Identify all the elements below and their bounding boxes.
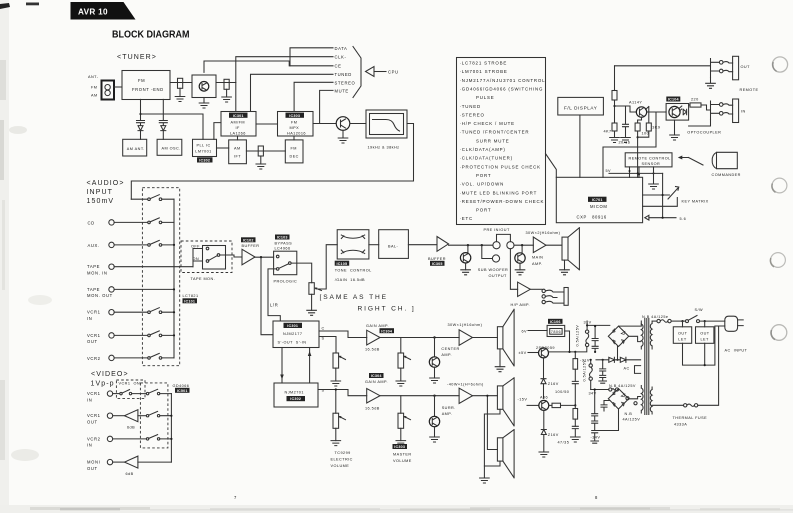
ground — [222, 97, 232, 102]
svg-text:BLOCK DIAGRAM: BLOCK DIAGRAM — [112, 30, 190, 41]
remote OUT jack — [615, 65, 711, 67]
volume pot — [309, 283, 314, 295]
wire AM IFT to FM DEC — [246, 150, 285, 152]
svg-text:TC9299: TC9299 — [335, 451, 351, 455]
svg-text:COMMANDER: COMMANDER — [712, 173, 741, 177]
punch hole artifact — [771, 253, 786, 268]
svg-text:MON. IN: MON. IN — [87, 270, 107, 275]
muting transistor — [434, 338, 436, 357]
svg-text:AVR 10: AVR 10 — [78, 8, 108, 17]
svg-text:30W×2(H16ohm): 30W×2(H16ohm) — [526, 231, 561, 235]
svg-text:IN: IN — [741, 109, 746, 113]
svg-text:THERMAL FUSE: THERMAL FUSE — [673, 416, 708, 420]
svg-text:VOLUME: VOLUME — [393, 459, 412, 463]
svg-text:100/50: 100/50 — [555, 390, 569, 394]
svg-text:BUFFER: BUFFER — [242, 244, 260, 248]
svg-text:16.5dB: 16.5dB — [365, 407, 380, 411]
OUT LET 1 — [673, 327, 691, 344]
muting transistor 2 — [434, 396, 436, 417]
svg-text:VCR1: VCR1 — [87, 391, 101, 396]
wire IC106 output — [565, 331, 570, 352]
svg-text:7806: 7806 — [551, 330, 561, 334]
wire pre jack to headphone amp — [510, 249, 517, 289]
svg-text:IC301: IC301 — [287, 324, 298, 328]
video bus — [170, 394, 172, 463]
resistor 4K7 — [612, 123, 617, 131]
wire list box funnel to micom — [546, 154, 557, 178]
wire buffer branch to NJM2177 — [261, 257, 273, 335]
wire front-end AM to diodes — [141, 99, 164, 120]
svg-text:CPU: CPU — [388, 70, 399, 75]
svg-text:<VIDEO>: <VIDEO> — [91, 371, 129, 378]
svg-text:A114Y: A114Y — [629, 101, 642, 105]
brace bracket — [353, 47, 361, 98]
svg-text:A56: A56 — [540, 396, 548, 400]
headphone amp — [518, 282, 531, 296]
AM ANT. block — [123, 139, 147, 156]
bridge rectifier 2 — [608, 389, 628, 409]
svg-text:IN: IN — [87, 443, 92, 448]
antenna terminal block — [102, 81, 115, 100]
svg-text:CE: CE — [335, 64, 342, 69]
svg-text:IC301: IC301 — [233, 114, 244, 118]
svg-text:IC501: IC501 — [177, 389, 188, 393]
svg-text:REMOTE: REMOTE — [740, 88, 759, 92]
fuse 0.5A/125V 2 — [590, 360, 592, 364]
resistor 100 — [638, 117, 642, 123]
svg-text:AM OSC.: AM OSC. — [162, 147, 181, 151]
ground — [175, 97, 185, 102]
wire IC303 to mute transistor — [313, 123, 336, 125]
svg-text:N.B 4A/125V: N.B 4A/125V — [609, 384, 636, 388]
ground — [331, 381, 341, 386]
ground — [430, 437, 440, 442]
svg-text:IC304: IC304 — [381, 329, 393, 333]
resistor ladder 2 — [573, 409, 578, 420]
AM IFT block — [229, 140, 247, 164]
wire 5V rail to remote line — [614, 66, 616, 91]
bridge rectifier — [608, 326, 628, 346]
svg-text:GAIN AMP.: GAIN AMP. — [366, 324, 389, 328]
svg-text:LC7821: LC7821 — [183, 294, 199, 298]
svg-text:OUT: OUT — [87, 339, 98, 344]
svg-text:S: S — [322, 337, 325, 341]
smoothing capacitors — [592, 326, 598, 352]
svg-text:ON: ON — [134, 382, 141, 386]
wire node to PLL — [141, 114, 204, 139]
wire tape mon to buffer — [220, 255, 242, 257]
wire STEREO from IC303 — [294, 82, 333, 111]
svg-text:AMP.: AMP. — [442, 412, 453, 416]
electric volume pot — [333, 353, 339, 368]
svg-text:PRE IN/OUT: PRE IN/OUT — [484, 228, 510, 232]
muting transistor 2 — [521, 245, 523, 253]
svg-text:6V: 6V — [522, 329, 528, 333]
ground — [480, 478, 490, 483]
svg-text:·H/P CHECK / MUTE: ·H/P CHECK / MUTE — [460, 121, 515, 126]
resistor (tank) — [224, 79, 229, 89]
wire DATA — [290, 48, 333, 66]
svg-text:0.5A/125V: 0.5A/125V — [582, 360, 586, 382]
svg-text:·CLK/DATA(TUNER): ·CLK/DATA(TUNER) — [460, 156, 513, 161]
svg-text:LA1266: LA1266 — [230, 131, 246, 135]
F/L DISPLAY block — [558, 97, 604, 115]
FM FRONT-END block — [122, 71, 170, 100]
transformer secondary windings — [641, 321, 643, 349]
ground — [307, 310, 317, 315]
NJM2701 block IC302 — [274, 383, 318, 407]
svg-text:IC102: IC102 — [243, 238, 254, 242]
wire center amp to speaker — [473, 337, 498, 339]
svg-text:IC101: IC101 — [184, 299, 195, 303]
svg-text:STEREO: STEREO — [335, 80, 356, 85]
tape monitor dashed box — [181, 241, 232, 273]
svg-text:LET: LET — [678, 337, 687, 341]
svg-text:FM: FM — [291, 121, 297, 125]
svg-text:PLL IC: PLL IC — [197, 143, 211, 147]
svg-text:MON. OUT: MON. OUT — [87, 293, 113, 298]
svg-text:FM: FM — [138, 78, 145, 83]
IC106 regulator 7806 — [548, 319, 563, 324]
svg-text:INPUT: INPUT — [87, 189, 114, 196]
svg-text:0.5A/125V: 0.5A/125V — [576, 325, 580, 347]
svg-text:CLK-: CLK- — [335, 55, 347, 60]
ground — [495, 367, 505, 372]
wire F/L display to micom — [579, 115, 581, 177]
svg-text:·PROTECTION PULSE CHECK: ·PROTECTION PULSE CHECK — [460, 164, 541, 169]
wire buffer to pre jacks — [449, 244, 493, 246]
wire tone to balance — [369, 244, 379, 246]
svg-text:·TUNED /FRONT/CENTER: ·TUNED /FRONT/CENTER — [460, 130, 530, 135]
ground — [331, 441, 341, 446]
svg-text:-15V: -15V — [518, 398, 528, 402]
COMMANDER remote handset — [712, 152, 737, 168]
svg-text:<AUDIO>: <AUDIO> — [87, 180, 125, 187]
wire CLK to PLL — [236, 57, 333, 112]
svg-text:1Vp-p: 1Vp-p — [91, 381, 115, 388]
rail 31V to bridge — [587, 324, 610, 326]
svg-text:OPTOCOUPLER: OPTOCOUPLER — [687, 131, 721, 135]
svg-text:TAPE: TAPE — [87, 287, 100, 292]
5.6 key return arrow — [645, 215, 649, 220]
wire antenna to front-end — [114, 86, 122, 88]
svg-text:N.B 4A/125e: N.B 4A/125e — [642, 315, 668, 319]
ground — [396, 441, 406, 446]
svg-text:·LM7001 STROBE: ·LM7001 STROBE — [460, 69, 508, 74]
svg-text:BYPASS: BYPASS — [275, 242, 293, 246]
remote control sensor block — [625, 153, 672, 167]
IC303 FM MPX block — [278, 112, 314, 137]
svg-text:47/35: 47/35 — [558, 441, 570, 445]
IC303 master volume label — [393, 444, 408, 449]
wire PLL to AM IFT — [217, 147, 229, 149]
svg-text:VCR1: VCR1 — [119, 382, 131, 386]
wire filter to audio bus — [131, 124, 413, 200]
muting transistor — [467, 245, 469, 252]
svg-text:4333A: 4333A — [674, 423, 687, 427]
resistor (IF) — [178, 78, 183, 88]
ground — [539, 452, 549, 457]
buffer amp IC102 — [241, 237, 256, 242]
punch hole artifact — [772, 178, 787, 193]
wire balance to buffer IC305 — [408, 244, 437, 246]
outlet commons — [683, 326, 725, 365]
headphone jack — [530, 288, 542, 290]
wire bridge to winding — [629, 336, 641, 341]
CPU arrow — [366, 67, 375, 77]
ground — [706, 78, 716, 89]
FM DEC block — [285, 140, 303, 163]
electric volume pot 2 — [333, 413, 339, 428]
svg-text:SURR MUTE: SURR MUTE — [476, 138, 509, 143]
collector rail to fuse — [549, 347, 587, 352]
svg-text:F/L DISPLAY: F/L DISPLAY — [564, 106, 597, 111]
svg-text:VCR1: VCR1 — [87, 310, 101, 315]
svg-text:C: C — [322, 327, 325, 331]
junction node — [613, 105, 615, 107]
svg-text:MONI: MONI — [87, 460, 100, 465]
capacitor 47/35 — [572, 426, 578, 437]
svg-text:PORT: PORT — [476, 208, 491, 213]
junction node — [637, 136, 639, 138]
svg-text:IC104: IC104 — [668, 98, 680, 102]
tape monitor switch block — [203, 246, 226, 270]
svg-text:NJM2701: NJM2701 — [285, 390, 304, 394]
master volume pot 2 — [400, 396, 402, 414]
thermal fuse line — [652, 404, 683, 406]
svg-text:IC103: IC103 — [277, 236, 288, 240]
svg-text:<TUNER>: <TUNER> — [117, 54, 157, 61]
IC101 switch matrix dashed box — [142, 188, 179, 366]
svg-text:AM: AM — [234, 147, 241, 151]
video switch dashed box — [140, 383, 168, 448]
key matrix feed line — [662, 173, 664, 217]
mute transistor — [336, 117, 350, 131]
svg-text:OUT: OUT — [741, 65, 751, 69]
sensor legs — [630, 167, 654, 184]
junction node — [139, 113, 141, 115]
zener Z16V 2 — [541, 410, 546, 452]
svg-text:·LC7821 STROBE: ·LC7821 STROBE — [460, 61, 508, 66]
svg-text:TAPE: TAPE — [87, 264, 100, 269]
tuner input switch row — [131, 198, 147, 200]
ground — [649, 184, 659, 189]
svg-text:L/R: L/R — [270, 303, 278, 308]
wire buffer to IC103 — [255, 256, 274, 258]
diode (AM ANT) — [137, 121, 145, 140]
PLL IC block — [193, 139, 217, 156]
svg-text:[SAME AS THE: [SAME AS THE — [320, 294, 388, 301]
svg-text:MAIN: MAIN — [532, 256, 543, 260]
svg-text:FM: FM — [291, 147, 297, 151]
AC INPUT plug — [725, 316, 738, 331]
ground — [256, 164, 266, 169]
svg-text:IC701: IC701 — [592, 198, 603, 202]
FM RF transistor block — [192, 75, 216, 98]
ground — [338, 138, 348, 143]
svg-text:VCR2: VCR2 — [87, 436, 101, 441]
svg-text:VCR1: VCR1 — [87, 333, 101, 338]
svg-text:AMP.: AMP. — [532, 262, 543, 266]
svg-text:HA12016: HA12016 — [287, 131, 306, 135]
VCR1 ON dashed box — [116, 380, 145, 399]
svg-text:IC305: IC305 — [432, 262, 443, 266]
svg-text:Z16V: Z16V — [548, 382, 559, 386]
svg-text:19kHz & 38kHz: 19kHz & 38kHz — [368, 146, 400, 150]
svg-text:GD4066: GD4066 — [173, 384, 190, 388]
svg-text:·RESET/POWER-DOWN CHECK: ·RESET/POWER-DOWN CHECK — [460, 199, 545, 204]
svg-text:PROLOGIC: PROLOGIC — [274, 280, 298, 284]
svg-text:NJM2177: NJM2177 — [283, 332, 302, 336]
wire IC303 to FM DEC — [293, 136, 295, 140]
center speaker — [497, 327, 503, 349]
arrows NJM2177 to NJM2701 — [281, 348, 283, 384]
wire gain amp to surround amp — [380, 395, 459, 397]
svg-text:FRONT -END: FRONT -END — [132, 87, 164, 92]
svg-text:IC304: IC304 — [371, 374, 383, 378]
svg-text:SUB WOOFER: SUB WOOFER — [478, 268, 508, 272]
svg-text:FM: FM — [91, 86, 97, 90]
ground — [430, 378, 440, 383]
transformer core — [645, 319, 649, 415]
wire IC301 to IC303 — [256, 123, 278, 125]
capacitor small — [601, 401, 610, 412]
svg-text:IC302: IC302 — [290, 397, 301, 401]
diode (AM OSC) — [159, 121, 167, 140]
svg-text:4A/125V: 4A/125V — [623, 417, 641, 421]
wire CE — [204, 61, 333, 72]
wire surround amp to speakers — [473, 396, 498, 450]
svg-text:OUT: OUT — [678, 331, 688, 335]
svg-text:CENTER: CENTER — [441, 347, 459, 351]
svg-text:BAL-: BAL- — [388, 244, 399, 248]
punch hole artifact — [771, 325, 787, 341]
balance block — [379, 230, 409, 259]
svg-text:PULSE: PULSE — [476, 95, 495, 100]
svg-text:IN: IN — [87, 397, 92, 402]
NJM2177 block IC301 — [273, 321, 319, 348]
resistor — [612, 91, 617, 101]
svg-text:-40W×1(H=6ohm): -40W×1(H=6ohm) — [447, 383, 484, 387]
wire IC103 to volume pot — [291, 263, 312, 283]
ground — [610, 138, 620, 143]
svg-text:CXP 80916: CXP 80916 — [577, 214, 607, 219]
IC103 bypass switch block — [275, 235, 290, 240]
svg-text:ELECTRIC: ELECTRIC — [331, 458, 353, 462]
svg-text:OUTPUT: OUTPUT — [489, 274, 508, 278]
resistor ladder — [574, 352, 576, 359]
outlet feeds — [683, 321, 705, 327]
pilot filter block 19kHz 38kHz — [366, 110, 407, 138]
svg-text:IF: IF — [236, 126, 241, 130]
gain amp IC304 bottom — [369, 373, 384, 378]
key matrix symbol — [643, 194, 670, 196]
svg-text:ANT-: ANT- — [88, 75, 99, 79]
svg-text:IC106: IC106 — [550, 320, 561, 324]
wire gain amp to center amp — [380, 337, 459, 339]
svg-text:·MUTE LED BLINKING PORT: ·MUTE LED BLINKING PORT — [460, 190, 538, 195]
svg-text:AC INPUT: AC INPUT — [725, 349, 748, 353]
zener Z16V — [541, 358, 546, 399]
svg-text:5.6: 5.6 — [680, 217, 687, 221]
AM OSC. block — [157, 139, 182, 155]
svg-text:-34V: -34V — [591, 435, 601, 439]
svg-text:MPX: MPX — [290, 126, 300, 130]
wire collector to optocoupler — [646, 107, 667, 113]
-34V leg — [592, 390, 598, 442]
IR arrow symbol — [678, 156, 683, 160]
svg-text:VOLUME: VOLUME — [331, 464, 350, 468]
resistor — [549, 404, 552, 406]
remote IN jack — [711, 101, 720, 120]
svg-text:OUT: OUT — [87, 466, 98, 471]
optocoupler IC104 — [666, 97, 680, 102]
surround speaker 2 — [497, 438, 503, 461]
ground — [571, 437, 581, 442]
svg-text:MASTER: MASTER — [393, 453, 412, 457]
ground — [515, 270, 525, 275]
svg-text:RIGHT CH. ]: RIGHT CH. ] — [358, 306, 416, 313]
svg-text:S’-OUT S’-IN: S’-OUT S’-IN — [278, 341, 307, 345]
wire TUNED from IC301 — [251, 74, 334, 111]
ground — [461, 270, 471, 275]
capacitor — [600, 360, 606, 381]
svg-text:IC302: IC302 — [199, 159, 210, 163]
svg-text:IN: IN — [87, 316, 92, 321]
svg-text:OUT: OUT — [87, 419, 98, 424]
svg-text:·NJM2177A/NJU3701 CONTROL: ·NJM2177A/NJU3701 CONTROL — [460, 78, 546, 83]
svg-text:34V: 34V — [589, 391, 597, 395]
svg-text:6dB: 6dB — [127, 426, 135, 430]
svg-text:IC303: IC303 — [289, 114, 300, 118]
svg-text:IC303: IC303 — [394, 445, 405, 449]
wire pre jack to main amp — [514, 244, 533, 246]
svg-text:·STEREO: ·STEREO — [460, 112, 485, 117]
capacitor 20/16 — [623, 106, 629, 138]
audio bus — [173, 199, 175, 358]
svg-text:GAIN AMP.: GAIN AMP. — [365, 380, 388, 384]
svg-text:AM: AM — [91, 94, 98, 98]
wire to 5V node — [603, 112, 656, 177]
sub woofer jack — [482, 245, 493, 258]
svg-text:LC4966: LC4966 — [275, 247, 291, 251]
svg-text:·GD4066/GD4066 (SWITCHING: ·GD4066/GD4066 (SWITCHING — [460, 87, 544, 92]
svg-text:±5V: ±5V — [519, 351, 527, 355]
transformer primary winding — [650, 321, 652, 349]
svg-text:IFT: IFT — [234, 155, 241, 159]
surround speaker — [497, 386, 503, 409]
wire IC301 to PLL — [214, 123, 221, 140]
svg-text:LET: LET — [701, 337, 710, 341]
svg-text:S/W: S/W — [695, 308, 704, 312]
svg-text:·CLK/DATA(AMP): ·CLK/DATA(AMP) — [460, 147, 506, 152]
micom IC701 block — [556, 177, 642, 222]
svg-text:20/16: 20/16 — [619, 141, 631, 145]
IC301 AM/FM IF block — [221, 112, 256, 137]
resistor — [258, 146, 263, 156]
svg-text:REMOTE CONTROL: REMOTE CONTROL — [629, 156, 671, 160]
wire MUTE — [320, 90, 333, 123]
ground — [199, 103, 209, 108]
svg-text:MICOM: MICOM — [590, 204, 607, 209]
capacitor 100/50 — [572, 381, 578, 405]
svg-text:MUTE: MUTE — [335, 88, 349, 93]
svg-text:N.B: N.B — [625, 412, 633, 416]
wire L/R to NJM2177 — [268, 269, 280, 321]
svg-text:VCR2: VCR2 — [87, 356, 101, 361]
svg-text:30W×1(H16ohm): 30W×1(H16ohm) — [448, 323, 483, 327]
svg-text:OUT: OUT — [700, 331, 710, 335]
